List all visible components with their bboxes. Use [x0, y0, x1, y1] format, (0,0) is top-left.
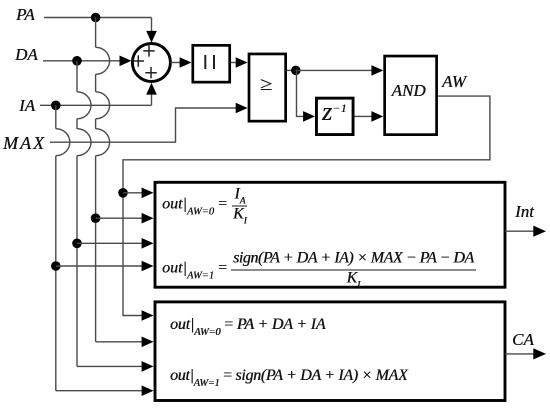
hop PA over DA line — [96, 47, 110, 74]
summer circle — [132, 44, 170, 82]
hop DA over IA line — [77, 92, 91, 119]
arrow into upper block input2 — [142, 213, 154, 224]
node comparator output — [291, 66, 301, 76]
abs block — [193, 45, 230, 82]
hop PA over IA line — [96, 92, 110, 119]
wire summer to abs — [170, 62, 180, 64]
wire node down to delay — [297, 70, 304, 116]
abs bars — [205, 55, 214, 69]
label DA — [15, 46, 38, 63]
node PA junction — [91, 13, 101, 23]
label AW — [442, 73, 466, 90]
arrow into summer top — [146, 31, 157, 43]
wire node to AND upper input — [296, 69, 372, 71]
node AW branch — [118, 188, 128, 198]
label z exponent — [333, 104, 348, 116]
arrow into AND lower input — [371, 111, 383, 122]
wire AW branch into upper block input1 — [123, 192, 142, 194]
wire DA horizontal — [43, 60, 120, 62]
label CA — [512, 331, 534, 348]
wire PA branch into upper block input2 — [96, 217, 142, 219]
label AND — [392, 82, 426, 99]
arrow into AND upper input — [371, 65, 383, 76]
plus sign top — [143, 45, 154, 56]
label geq symbol — [260, 75, 272, 94]
equation lower block line 1 — [170, 317, 325, 333]
wire IA horizontal — [40, 104, 152, 106]
wire abs to comparator — [231, 62, 236, 64]
equation upper block line 1 — [162, 186, 249, 223]
arrow Int output — [533, 226, 546, 237]
hop PA over MAX line — [96, 129, 110, 156]
node PA branch — [91, 213, 101, 223]
node DA junction — [72, 56, 82, 66]
arrow into upper block input1 — [142, 188, 154, 199]
wire DA vertical drop — [76, 61, 78, 367]
wire IA vertical drop — [55, 105, 57, 390]
node DA branch — [72, 239, 82, 249]
wire MAX horizontal — [50, 108, 236, 142]
arrow into upper block input3 — [142, 238, 154, 249]
comparator block — [249, 54, 286, 121]
arrow into comparator lower input — [236, 103, 248, 114]
label Int — [515, 203, 534, 220]
wire comparator output to node — [287, 69, 296, 71]
label IA — [19, 97, 35, 114]
wire AW feedback — [123, 96, 490, 315]
wire Int output — [505, 230, 534, 232]
arrow into abs — [180, 57, 192, 68]
arrow AW into lower block input1 — [142, 310, 154, 321]
arrow into delay — [303, 111, 315, 122]
wire DA into lower block input3 — [77, 365, 142, 367]
arrow into summer bottom — [146, 83, 157, 95]
AND block — [385, 56, 437, 135]
wire PA horizontal — [44, 17, 152, 19]
upper equation block — [155, 182, 505, 287]
node IA branch — [51, 261, 61, 271]
arrow into lower block input3 — [142, 361, 154, 372]
wire PA into lower block input2 — [96, 341, 142, 343]
label MAX — [3, 134, 46, 152]
wire IA into lower block input4 — [56, 390, 142, 392]
arrow into comparator upper input — [236, 57, 248, 68]
arrow into lower block input2 — [142, 337, 154, 348]
lower equation block — [155, 302, 505, 401]
delay block z^-1 — [316, 98, 353, 134]
wire DA branch into upper block input3 — [77, 242, 142, 244]
plus sign left — [133, 55, 144, 66]
label z^-1 — [322, 99, 332, 125]
node IA junction — [51, 101, 61, 111]
wire IA branch into upper block input4 — [56, 265, 142, 267]
wire PA vertical drop — [95, 18, 97, 342]
arrow into summer left — [120, 56, 132, 67]
wire IA rise to summer — [151, 94, 153, 105]
hop DA over MAX line — [77, 129, 91, 156]
equation upper block line 2 — [162, 250, 476, 287]
arrow into lower block input4 — [142, 385, 154, 396]
arrow CA output — [533, 348, 546, 359]
equation lower block line 2 — [170, 368, 407, 384]
plus sign bottom — [145, 67, 156, 78]
wire CA output — [505, 353, 534, 355]
wire delay to AND lower input — [355, 115, 372, 117]
wire PA drop to summer — [151, 18, 153, 32]
arrow into upper block input4 — [142, 261, 154, 272]
label PA — [16, 6, 35, 23]
hop IA over MAX line — [56, 129, 70, 156]
